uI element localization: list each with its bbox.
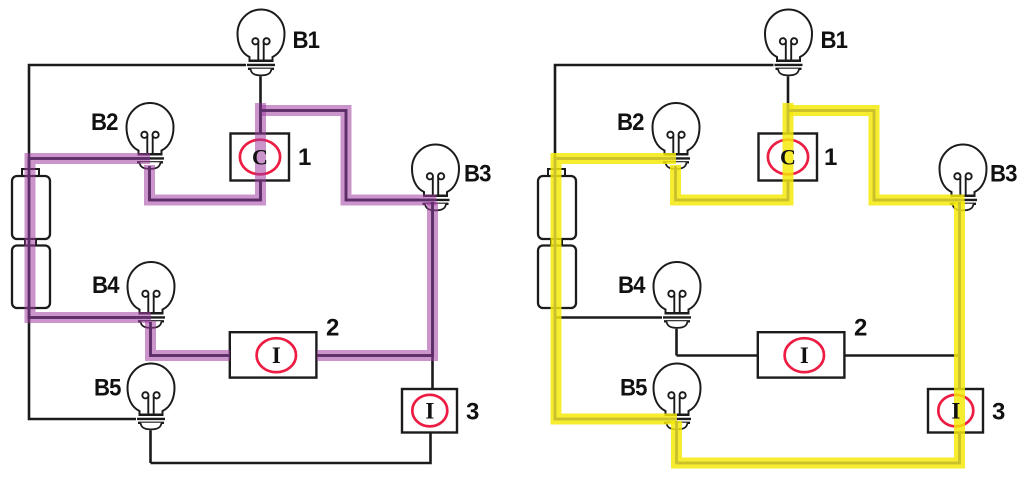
svg-text:C: C [252,145,268,170]
switch 1 box (right) [759,134,818,181]
battery BT2 cell 2 [538,246,576,309]
battery BT1 cell 2 nub [25,239,36,246]
battery BT2 cell 1 [538,176,576,239]
svg-text:B2: B2 [617,109,644,136]
switch 3 box (right) [928,389,983,433]
wire lamp B4 drop to switch 2 rail [149,327,152,356]
wire lamp B3 drop to switch 3 (right) [958,208,961,389]
battery BT2 cap [548,169,565,177]
switch 1 box [231,134,290,181]
highlight band B2 drop to switch 1 (purple) [150,103,261,200]
svg-text:C: C [780,145,796,170]
svg-text:B1: B1 [293,27,320,54]
lamp B2 (right) [653,103,700,170]
wire detour node above switch 1 to lamp B3 [261,111,436,201]
wire left rail down to lamp B5 [29,318,139,420]
wire lamp B1 down through switch 1 (right) [787,75,790,200]
switch 3 box [402,389,457,433]
wire switch 1 bottom rail to lamp B2 drop [150,199,261,202]
svg-text:2: 2 [326,315,339,342]
wire switch 3 bottom to lamp B5 drop [151,433,431,464]
wire battery bottom to lamp B4 [29,316,139,319]
svg-text:B3: B3 [464,161,491,188]
svg-text:B5: B5 [620,375,647,402]
highlight band detour to B3 (purple) [261,111,437,201]
active wire detour to B3 (dark purple) [261,111,435,201]
active wire B2 drop to switch 1 (dark yellow) [676,103,789,200]
svg-text:I: I [425,398,434,423]
wire detour node above switch 1 to lamp B3 (right) [788,111,963,201]
switch 3 red ring [412,395,447,427]
svg-text:I: I [272,343,281,368]
active wire battery loop (dark purple) [29,159,151,318]
switch 2 box [230,332,317,377]
battery BT1 cap [22,169,39,177]
lamp B5 [128,363,175,430]
wire switch 3 bottom to lamp B5 drop (right) [677,433,960,464]
wire lamp B5 drop [149,428,152,463]
switch 1 red ring [240,140,280,175]
svg-text:B4: B4 [92,272,120,299]
wire lamp B2 drop [148,166,151,200]
svg-text:3: 3 [466,399,479,426]
highlight band battery loop down to B5 (yellow) [556,159,677,420]
wire lamp B3 drop to switch 3 [431,208,434,389]
active wire battery loop down to B5 (dark yellow) [555,159,677,420]
lamp B1 [238,9,285,76]
svg-text:B1: B1 [821,27,848,54]
wire battery top to lamp B2 (right) [555,157,664,160]
lamp B4 [128,262,175,329]
wire lamp B1 down through switch 1 [259,75,262,200]
wire lamp B5 drop (right) [675,428,678,463]
wire left rail down to lamp B5 (right) [555,318,665,420]
highlight band B3 drop to switch 2 to B4 (purple) [151,202,433,356]
lamp B2 [127,103,174,170]
active wire B2 drop to switch 1 (dark purple) [150,103,261,200]
lamp B3 [412,144,459,211]
wire battery top to lamp B2 [29,157,138,160]
switch 3 red ring (right) [938,395,973,427]
highlight band battery loop (purple) [30,159,151,318]
wire lamp B2 drop (right) [674,166,677,200]
wire top-left: battery top to lamp B1 (right) [555,65,774,159]
wire battery bottom to lamp B4 (right) [555,316,665,319]
svg-text:2: 2 [854,315,867,342]
active wire B3 drop through switch 3 to B5 (dark yellow) [677,202,960,463]
active wire B3 drop to switch 2 to B4 (dark purple) [151,202,433,356]
switch 1 red ring (right) [768,140,808,175]
svg-text:3: 3 [992,399,1005,426]
highlight band B3 drop through switch 3 to B5 (yellow) [677,202,960,463]
battery BT1 cell 2 [12,246,50,309]
switch 2 box (right) [758,332,845,377]
wire switch 1 bottom rail to lamp B2 drop (right) [676,199,789,202]
highlight band detour to B3 (yellow) [788,111,965,201]
lamp B1 (right) [765,9,812,76]
svg-text:I: I [951,398,960,423]
highlight band B2 drop to switch 1 (yellow) [676,103,789,200]
wire switch 2 rail (right) [677,354,961,357]
wire through battery [28,159,31,318]
svg-text:B2: B2 [91,109,118,136]
lamp B4 (right) [654,262,701,329]
svg-text:B5: B5 [94,375,121,402]
active wire detour to B3 (dark yellow) [788,111,962,201]
svg-text:1: 1 [298,144,311,171]
svg-text:1: 1 [824,144,837,171]
lamp B5 (right) [654,363,701,430]
wire top-left: battery top to lamp B1 [29,65,248,159]
svg-text:B3: B3 [990,161,1017,188]
wire lamp B4 drop to switch 2 rail (right) [675,327,678,356]
wire through battery (right) [554,159,557,318]
svg-text:I: I [800,343,809,368]
svg-text:B4: B4 [618,272,646,299]
lamp B3 (right) [940,144,987,211]
wire switch 2 rail [151,354,435,357]
battery BT1 cell 1 [12,176,50,239]
switch 2 red ring [257,338,296,372]
battery BT2 cell 2 nub [551,239,562,246]
switch 2 red ring (right) [785,338,824,372]
